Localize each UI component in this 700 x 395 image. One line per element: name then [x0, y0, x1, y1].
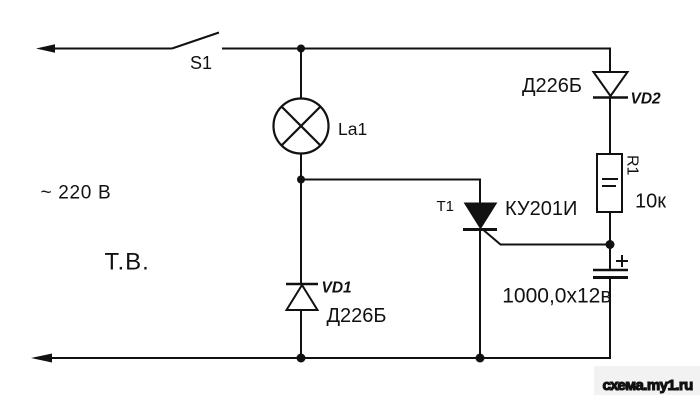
wire top rail right segment	[222, 48, 611, 50]
svg-text:Д226Б: Д226Б	[522, 75, 582, 97]
wire VD2 to R1	[609, 97, 611, 154]
wire thyristor cathode to bottom rail	[479, 229, 481, 358]
svg-text:S1: S1	[190, 53, 212, 73]
svg-text:VD2: VD2	[631, 91, 662, 108]
wire gate	[484, 231, 610, 245]
node bottom thyristor junction	[476, 354, 485, 363]
svg-text:1000,0х12в: 1000,0х12в	[502, 285, 611, 308]
svg-text:Т.В.: Т.В.	[105, 249, 150, 276]
svg-text:схема.my1.ru: схема.my1.ru	[603, 377, 694, 394]
wire capacitor to bottom rail	[609, 278, 611, 359]
svg-text:~ 220 В: ~ 220 В	[41, 183, 112, 204]
lamp La1	[274, 99, 329, 154]
diode VD2	[593, 72, 628, 98]
svg-text:VD1: VD1	[322, 280, 352, 297]
wire top rail left segment	[40, 48, 172, 50]
diode VD1	[286, 284, 318, 310]
svg-text:Д226Б: Д226Б	[327, 305, 387, 327]
arrow bottom-left	[31, 354, 52, 363]
node junction top	[297, 45, 305, 53]
switch S1	[172, 33, 219, 49]
capacitor C1 polarity plus	[616, 255, 628, 267]
node junction mid	[297, 176, 305, 184]
svg-text:КУ201И: КУ201И	[505, 198, 577, 220]
wire bottom rail	[35, 357, 611, 359]
resistor R1	[597, 154, 622, 212]
arrow top-left	[36, 44, 55, 53]
svg-text:R1: R1	[624, 155, 641, 176]
wire node to thyristor branch	[301, 180, 480, 204]
wire node to VD1	[300, 180, 302, 285]
watermark background	[594, 366, 700, 395]
wire right rail top	[609, 49, 611, 73]
thyristor T1	[463, 203, 497, 230]
svg-text:10к: 10к	[635, 191, 666, 213]
wire VD1 to bottom rail	[300, 310, 302, 358]
svg-text:La1: La1	[338, 119, 367, 139]
wire lamp to node	[300, 154, 302, 180]
wire R1 to gate node	[609, 212, 611, 270]
svg-text:Т1: Т1	[437, 198, 455, 215]
wire junction to lamp	[300, 49, 302, 100]
capacitor C1	[593, 270, 628, 278]
node gate junction	[606, 240, 615, 249]
node bottom VD1 junction	[297, 354, 306, 363]
